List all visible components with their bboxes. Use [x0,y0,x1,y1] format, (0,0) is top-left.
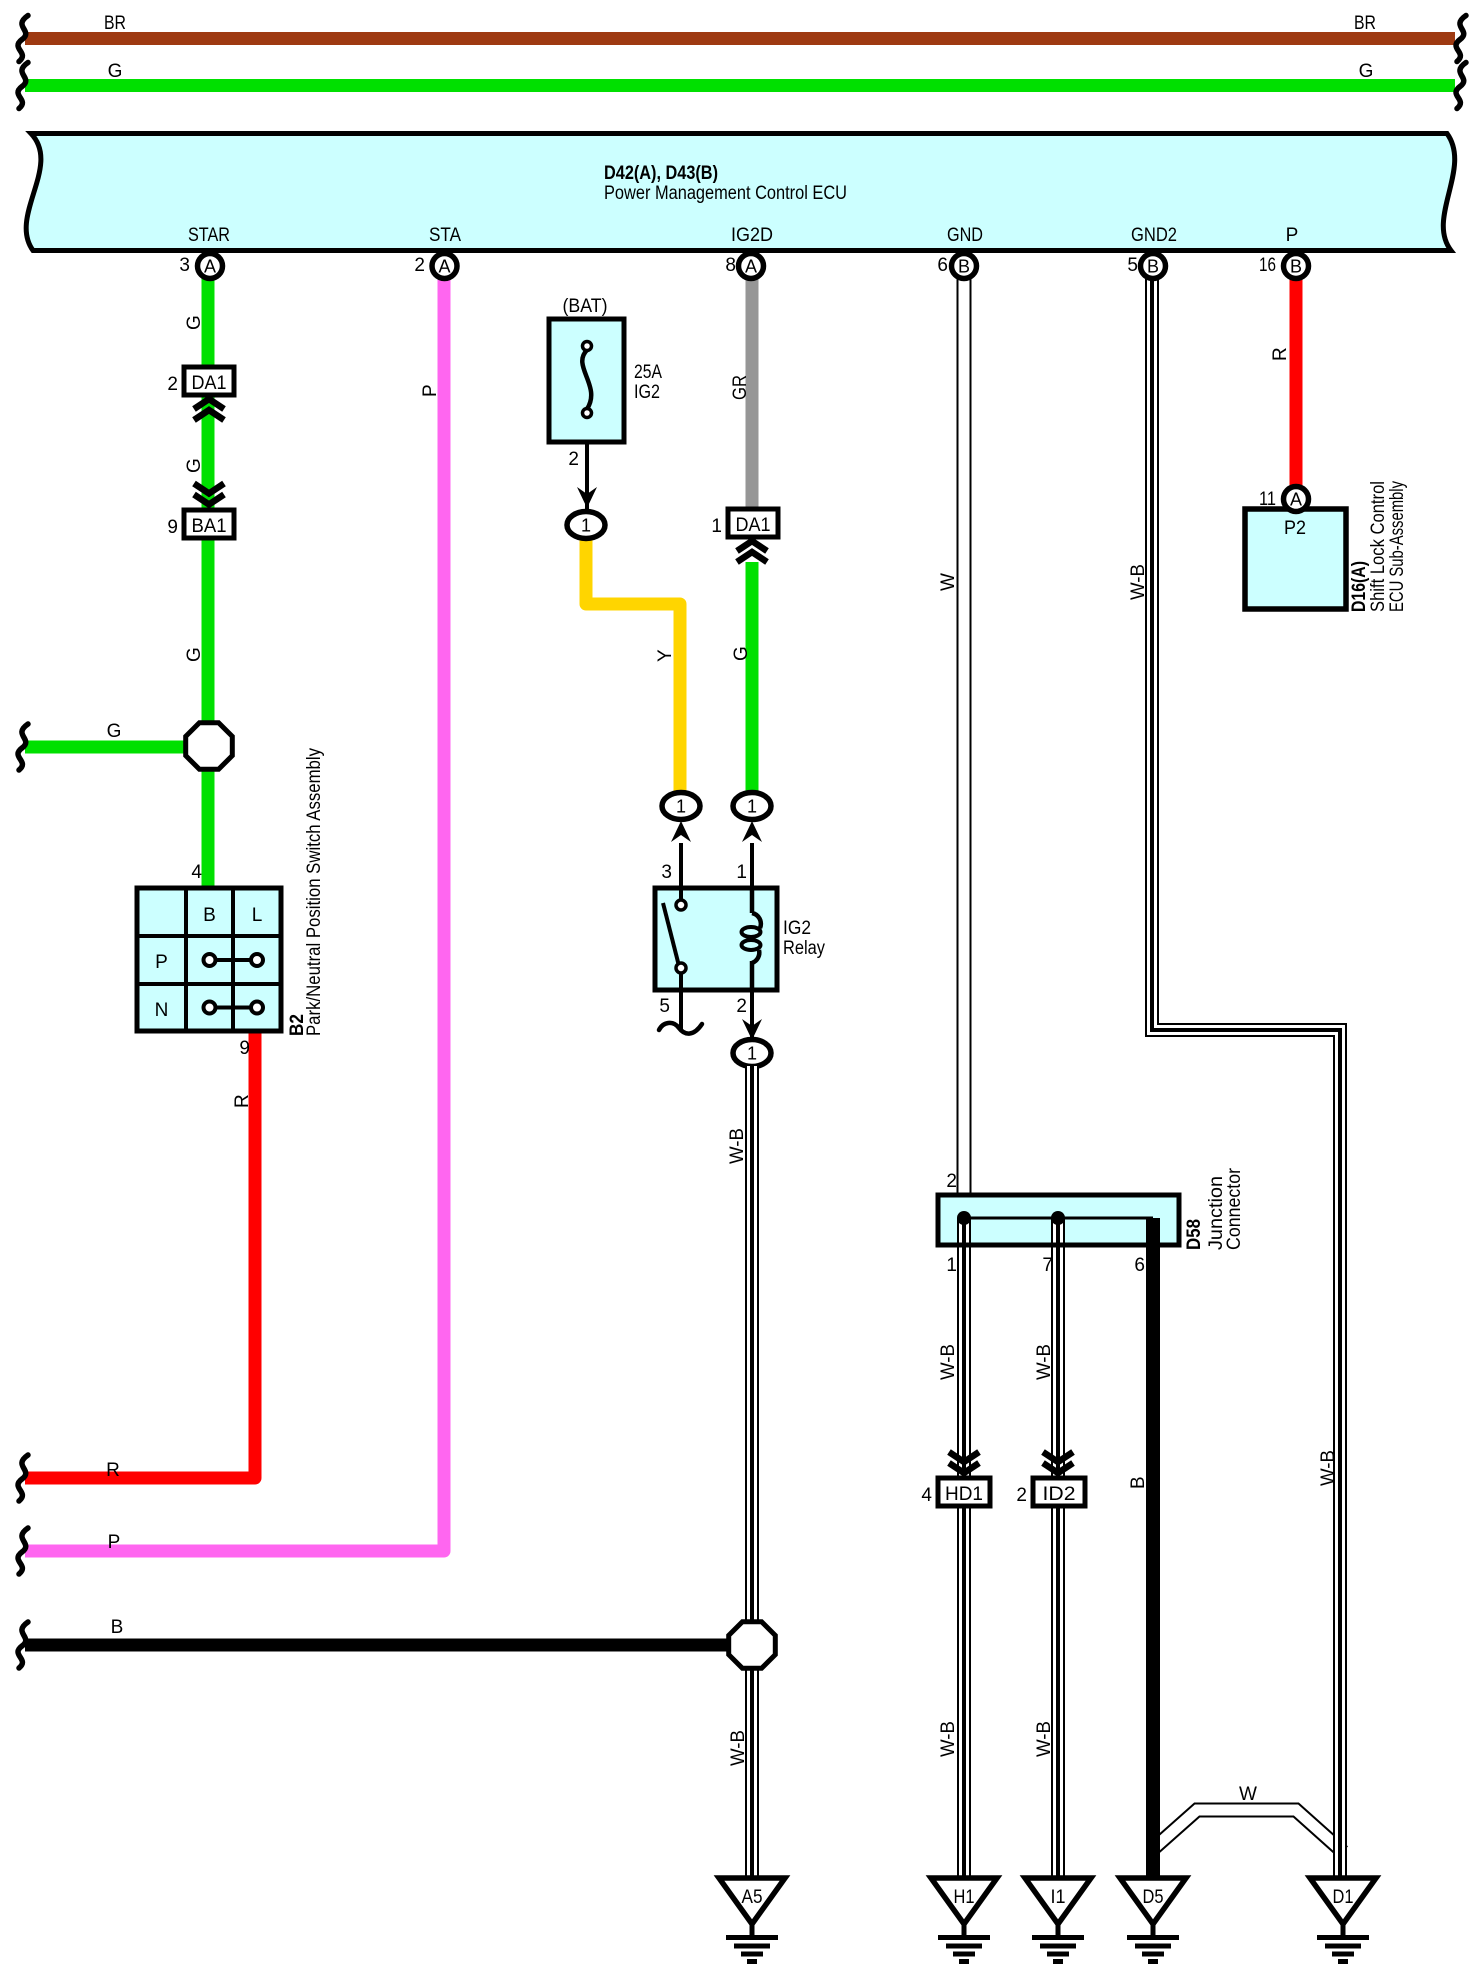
svg-text:W-B: W-B [727,1128,748,1164]
svg-text:P2: P2 [1284,518,1306,539]
svg-text:W-B: W-B [1128,564,1149,600]
svg-text:P: P [155,952,168,973]
svg-text:W-B: W-B [1318,1450,1339,1486]
svg-text:BR: BR [104,13,126,34]
svg-text:W-B: W-B [1034,1721,1055,1757]
svg-text:11: 11 [1259,489,1276,510]
svg-text:P: P [420,384,441,397]
svg-text:B: B [1128,1476,1149,1489]
svg-text:8: 8 [725,255,736,276]
svg-text:G: G [1359,61,1374,82]
svg-text:A: A [438,257,450,277]
svg-text:ID2: ID2 [1043,1484,1076,1505]
svg-text:I1: I1 [1051,1887,1066,1908]
svg-text:GND2: GND2 [1131,225,1177,246]
svg-text:A: A [1290,490,1302,510]
svg-text:P: P [108,1532,121,1553]
svg-text:IG2: IG2 [634,382,660,403]
svg-text:Y: Y [655,649,676,662]
svg-text:Relay: Relay [783,938,825,959]
svg-text:D58: D58 [1184,1219,1205,1250]
svg-text:2: 2 [568,449,579,470]
svg-text:H1: H1 [954,1887,975,1908]
svg-text:1: 1 [676,797,686,817]
svg-text:1: 1 [581,516,591,536]
svg-text:R: R [106,1460,120,1481]
svg-text:2: 2 [736,996,747,1017]
svg-text:D16(A): D16(A) [1349,561,1370,612]
svg-text:B: B [111,1617,124,1638]
svg-text:3: 3 [661,862,672,883]
svg-text:GR: GR [730,375,751,400]
svg-text:G: G [731,646,752,661]
svg-text:D42(A), D43(B): D42(A), D43(B) [604,163,718,184]
svg-text:2: 2 [1016,1485,1027,1506]
svg-text:A: A [745,257,757,277]
svg-text:2: 2 [167,374,178,395]
svg-text:W: W [1239,1784,1257,1805]
svg-text:B: B [203,905,216,926]
svg-text:Power Management Control ECU: Power Management Control ECU [604,183,847,204]
svg-text:1: 1 [747,797,757,817]
svg-text:25A: 25A [634,362,662,383]
svg-text:GND: GND [947,225,983,246]
svg-text:Shift Lock Control: Shift Lock Control [1368,481,1389,612]
svg-text:HD1: HD1 [945,1484,983,1505]
svg-text:1: 1 [711,516,722,537]
svg-text:IG2D: IG2D [731,225,773,246]
svg-text:4: 4 [191,862,202,883]
svg-text:G: G [184,315,205,330]
svg-text:BR: BR [1354,13,1376,34]
svg-text:16: 16 [1259,255,1276,276]
svg-text:B: B [1147,257,1159,277]
svg-text:Park/Neutral Position Switch A: Park/Neutral Position Switch Assembly [304,748,325,1036]
svg-text:A5: A5 [742,1887,763,1908]
svg-text:7: 7 [1042,1255,1053,1276]
svg-text:G: G [184,647,205,662]
svg-text:2: 2 [946,1171,957,1192]
svg-text:BA1: BA1 [192,516,227,537]
svg-text:D5: D5 [1143,1887,1164,1908]
svg-text:4: 4 [921,1485,932,1506]
svg-text:W: W [938,573,959,591]
svg-text:9: 9 [167,517,178,538]
svg-text:DA1: DA1 [192,373,227,394]
svg-text:G: G [184,458,205,473]
svg-text:9: 9 [239,1038,250,1059]
svg-text:3: 3 [179,255,190,276]
svg-text:N: N [155,1000,169,1021]
svg-text:6: 6 [937,255,948,276]
svg-text:STAR: STAR [188,225,230,246]
svg-text:1: 1 [747,1044,757,1064]
svg-text:(BAT): (BAT) [563,296,608,317]
svg-text:IG2: IG2 [783,918,811,939]
svg-text:G: G [107,721,122,742]
svg-text:R: R [232,1094,253,1108]
svg-text:W-B: W-B [938,1721,959,1757]
svg-text:W-B: W-B [728,1730,749,1766]
svg-text:L: L [252,905,263,926]
svg-text:STA: STA [429,225,461,246]
svg-text:P: P [1286,225,1299,246]
svg-text:6: 6 [1134,1255,1145,1276]
svg-text:W-B: W-B [938,1344,959,1380]
svg-text:1: 1 [736,862,747,883]
svg-text:R: R [1270,347,1291,361]
svg-text:G: G [108,61,123,82]
svg-text:ECU Sub-Assembly: ECU Sub-Assembly [1387,481,1408,612]
svg-text:B: B [958,257,970,277]
svg-text:DA1: DA1 [736,515,771,536]
svg-text:B: B [1290,257,1302,277]
svg-text:1: 1 [946,1255,957,1276]
svg-text:A: A [204,257,216,277]
svg-text:2: 2 [414,255,425,276]
svg-text:D1: D1 [1333,1887,1354,1908]
svg-text:W-B: W-B [1034,1344,1055,1380]
svg-text:Connector: Connector [1224,1167,1245,1250]
svg-text:5: 5 [659,996,670,1017]
svg-text:5: 5 [1127,255,1138,276]
